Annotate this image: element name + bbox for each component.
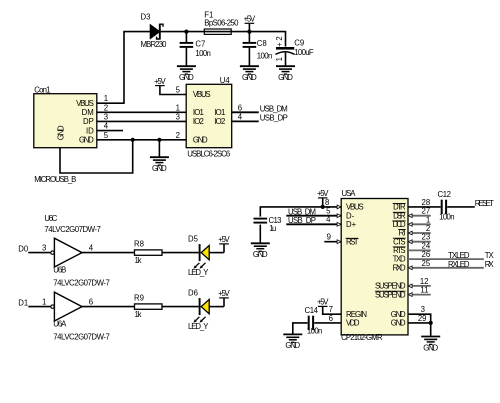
pin arrow D- — [337, 214, 341, 218]
svg-text:GND: GND — [57, 125, 66, 140]
svg-text:2: 2 — [176, 131, 180, 140]
svg-text:RX: RX — [485, 260, 495, 269]
ground under C9 — [276, 66, 295, 82]
wire GND Con1 to U4 — [97, 139, 186, 141]
svg-text:1: 1 — [275, 57, 284, 61]
wire RTS stub pin24 — [408, 249, 431, 251]
wire D6 to +5V — [209, 306, 224, 308]
svg-text:7: 7 — [329, 305, 333, 314]
svg-text:ID: ID — [86, 126, 94, 135]
svg-text:R8: R8 — [134, 239, 144, 248]
wire D0 to gate input — [28, 252, 50, 254]
wire VBUS from Con1 pin1 to riser — [97, 102, 124, 104]
svg-text:74LVC2G07DW-7: 74LVC2G07DW-7 — [53, 332, 110, 341]
svg-text:USB_DP: USB_DP — [288, 216, 316, 225]
wire DSR stub pin27 — [408, 215, 431, 217]
wire USB_DM stub to USA pin5 — [286, 215, 341, 217]
buffer U6A 74LVC2G07DW-7 — [51, 292, 110, 341]
+5V supply at D6 — [218, 289, 230, 307]
wire TXD net TXLED — [408, 258, 484, 260]
svg-text:IO1: IO1 — [214, 108, 225, 117]
svg-text:TX: TX — [485, 251, 495, 260]
ground at C14 — [283, 334, 302, 350]
wire SUSPEND stub pin12 — [408, 285, 431, 287]
connector Con1 MICROUSB_B — [34, 86, 97, 185]
wire D1 to gate input — [28, 306, 50, 308]
svg-text:24: 24 — [422, 241, 431, 250]
node junction at C7 — [184, 30, 188, 34]
node junction GND symbol tap — [157, 138, 161, 142]
svg-text:3: 3 — [104, 112, 108, 121]
svg-text:1: 1 — [104, 94, 108, 103]
pin arrow D+ — [337, 222, 341, 226]
svg-text:VBUS: VBUS — [346, 203, 364, 212]
svg-text:6: 6 — [329, 314, 333, 323]
svg-text:USBLC6-2SC6: USBLC6-2SC6 — [187, 150, 230, 159]
+5V supply at U4 VBUS — [154, 77, 186, 95]
svg-text:DM: DM — [82, 108, 94, 117]
LED D6 LED_Y — [188, 288, 209, 331]
svg-text:C8: C8 — [257, 39, 267, 48]
svg-text:3: 3 — [42, 244, 46, 253]
svg-text:LED_Y: LED_Y — [188, 268, 209, 277]
ground under C13 — [251, 243, 270, 259]
svg-text:U6B: U6B — [53, 266, 66, 275]
wire DTR pin28 to C12 — [408, 206, 441, 208]
svg-text:74LVC2G07DW-7: 74LVC2G07DW-7 — [44, 225, 101, 234]
svg-text:100uF: 100uF — [294, 48, 314, 57]
wire USB_DP stub from U4 pin4 — [232, 120, 259, 122]
svg-text:2: 2 — [104, 103, 108, 112]
svg-text:GND: GND — [391, 310, 406, 319]
node junction at C8 / +5V — [247, 30, 251, 34]
svg-text:4: 4 — [104, 122, 109, 131]
wire gate U6B output to R8 — [81, 252, 134, 254]
svg-text:D5: D5 — [188, 234, 199, 243]
svg-text:USA: USA — [342, 189, 357, 198]
svg-text:DP: DP — [83, 117, 94, 126]
pin arrow RI — [408, 231, 412, 235]
svg-text:1k: 1k — [135, 310, 142, 319]
buffer U6B 74LVC2G07DW-7 — [51, 238, 110, 287]
wire D5 to +5V — [209, 252, 224, 254]
svg-text:D3: D3 — [141, 13, 151, 22]
wire C12 to RESET — [447, 206, 475, 208]
svg-text:TXD: TXD — [393, 255, 406, 264]
diode D3 MBR230 — [141, 13, 168, 49]
wire USB_DM stub from U4 pin6 — [232, 111, 259, 113]
svg-text:SUSPEND: SUSPEND — [375, 282, 406, 291]
wire riser to top rail — [123, 32, 125, 104]
wire RXD net RXLED — [408, 267, 484, 269]
capacitor C14 100n — [305, 306, 323, 336]
svg-text:CP2102-GMR: CP2102-GMR — [341, 333, 383, 342]
+5V supply at D5 — [218, 235, 230, 253]
svg-text:U6A: U6A — [53, 320, 67, 329]
svg-text:1: 1 — [426, 215, 430, 224]
svg-text:TXLED: TXLED — [448, 251, 470, 260]
svg-text:23: 23 — [422, 233, 431, 242]
svg-text:RI: RI — [399, 229, 406, 238]
wire shield loop Con1 — [60, 140, 133, 173]
svg-text:MBR230: MBR230 — [141, 40, 168, 49]
svg-text:VDD: VDD — [346, 319, 360, 328]
svg-text:5: 5 — [104, 131, 109, 140]
svg-text:1u: 1u — [269, 224, 276, 233]
svg-text:3: 3 — [421, 305, 425, 314]
node junction +5V on VBUS — [321, 205, 325, 209]
svg-text:C7: C7 — [195, 39, 205, 48]
svg-text:C12: C12 — [438, 190, 452, 199]
wire gate U6A output to R9 — [81, 306, 134, 308]
svg-text:4: 4 — [238, 112, 243, 121]
ground under C8 — [240, 66, 259, 82]
wire GND pin29 — [408, 322, 431, 324]
svg-text:VBUS: VBUS — [193, 90, 211, 99]
svg-text:GND: GND — [391, 319, 406, 328]
svg-text:3: 3 — [176, 112, 180, 121]
svg-text:C9: C9 — [294, 38, 304, 47]
svg-text:CTS: CTS — [393, 237, 406, 246]
svg-text:IO2: IO2 — [193, 117, 204, 126]
svg-text:100n: 100n — [195, 49, 211, 58]
svg-text:1k: 1k — [135, 256, 142, 265]
svg-text:D+: D+ — [346, 220, 357, 229]
pin arrow RST — [337, 240, 341, 244]
svg-text:100n: 100n — [257, 52, 273, 61]
wire DM Con1 to U4 — [97, 111, 186, 113]
svg-text:D6: D6 — [188, 288, 198, 297]
wire CTS stub pin23 — [408, 241, 431, 243]
svg-text:VBUS: VBUS — [76, 99, 94, 108]
capacitor C12 100n — [438, 190, 455, 222]
svg-text:100n: 100n — [439, 213, 455, 222]
node junction shield/GND — [131, 138, 135, 142]
pin arrow DCD — [408, 222, 412, 226]
svg-text:DTR: DTR — [393, 203, 406, 212]
IC USA CP2102-GMR — [341, 189, 408, 342]
svg-text:4: 4 — [89, 243, 94, 252]
node junction GND pins — [429, 321, 433, 325]
LED D5 LED_Y — [188, 234, 209, 277]
svg-text:RTS: RTS — [393, 246, 406, 255]
resistor R8 1k — [134, 239, 162, 265]
wire RST stub USA pin9 — [324, 241, 341, 243]
+5V supply at USA VBUS — [317, 189, 329, 207]
svg-text:LED_Y: LED_Y — [188, 322, 209, 331]
pin arrow RXD — [408, 266, 412, 270]
pin arrow VBUS — [337, 205, 341, 209]
svg-text:100n: 100n — [307, 327, 323, 336]
pin arrow CTS — [408, 240, 412, 244]
svg-text:IO1: IO1 — [193, 108, 204, 117]
svg-text:R9: R9 — [134, 293, 144, 302]
svg-text:RESET: RESET — [475, 199, 494, 208]
pin arrow SUSPEND 12 — [408, 284, 412, 288]
svg-text:BpS06-250: BpS06-250 — [204, 18, 239, 27]
wire RI stub pin2 — [408, 232, 431, 234]
wire to ground USA — [430, 323, 432, 337]
wire GND pin3 — [408, 314, 431, 323]
+5V supply at C8 — [244, 14, 256, 31]
svg-text:5: 5 — [176, 85, 181, 94]
svg-text:9: 9 — [327, 233, 331, 242]
wire DCD stub pin1 — [408, 223, 431, 225]
svg-text:Con1: Con1 — [34, 86, 50, 95]
wire C14 to ground — [293, 323, 308, 335]
svg-text:4: 4 — [326, 215, 331, 224]
gate U6C spare labels — [44, 214, 101, 234]
wire VDD to C14 — [314, 322, 341, 324]
svg-text:C14: C14 — [305, 306, 319, 315]
svg-text:2: 2 — [426, 224, 430, 233]
svg-text:GND: GND — [79, 136, 94, 145]
svg-text:IO2: IO2 — [214, 117, 225, 126]
svg-text:25: 25 — [422, 259, 431, 268]
ground under GND net — [150, 140, 169, 173]
svg-text:11: 11 — [420, 286, 428, 295]
svg-text:2: 2 — [275, 36, 284, 40]
svg-text:GND: GND — [193, 136, 208, 145]
wire VBUS C13 to USA pin8 — [260, 206, 341, 208]
wire top rail left of D3 — [123, 31, 150, 33]
svg-text:28: 28 — [422, 198, 431, 207]
IC U4 USBLC6-2SC6 — [186, 76, 232, 159]
svg-text:6: 6 — [89, 297, 93, 306]
svg-text:6: 6 — [238, 103, 242, 112]
svg-text:12: 12 — [420, 277, 429, 286]
svg-text:D1: D1 — [18, 299, 28, 308]
wire R8 to D5 — [162, 252, 199, 254]
svg-text:RXLED: RXLED — [448, 260, 470, 269]
svg-text:U4: U4 — [220, 76, 231, 85]
capacitor C7 100n — [180, 32, 211, 67]
svg-text:USB_DP: USB_DP — [260, 114, 288, 123]
svg-text:1: 1 — [176, 103, 180, 112]
wire top rail D3 to C9 corner — [160, 31, 286, 33]
svg-text:REGIN: REGIN — [346, 310, 367, 319]
wire DP Con1 to U4 — [97, 120, 186, 122]
wire USB_DP stub to USA pin4 — [286, 223, 341, 225]
svg-text:26: 26 — [422, 250, 431, 259]
capacitor C8 100n — [243, 32, 273, 67]
wire SUSPEND stub pin11 — [408, 294, 431, 296]
pin arrow DSR — [408, 214, 412, 218]
pin arrow SUSPEND 11 — [408, 293, 412, 297]
capacitor C9 100uF polarized — [275, 31, 314, 66]
svg-text:+: + — [275, 42, 284, 47]
+5V supply at REGIN — [317, 298, 341, 315]
svg-text:74LVC2G07DW-7: 74LVC2G07DW-7 — [53, 279, 110, 288]
ground under C7 — [177, 66, 196, 82]
svg-text:29: 29 — [418, 314, 427, 323]
capacitor C13 1u — [253, 206, 281, 243]
svg-text:U6C: U6C — [44, 214, 57, 223]
svg-text:RXD: RXD — [393, 263, 406, 272]
wire ID stub — [97, 130, 123, 132]
resistor R9 1k — [134, 293, 162, 319]
svg-text:1: 1 — [42, 298, 46, 307]
svg-text:USB_DM: USB_DM — [260, 104, 288, 113]
fuse F1 BpS06-250 — [204, 10, 239, 34]
ground at USA — [421, 337, 440, 353]
wire R9 to D6 — [162, 306, 199, 308]
svg-text:MICROUSB_B: MICROUSB_B — [34, 175, 76, 184]
svg-text:D0: D0 — [18, 245, 29, 254]
